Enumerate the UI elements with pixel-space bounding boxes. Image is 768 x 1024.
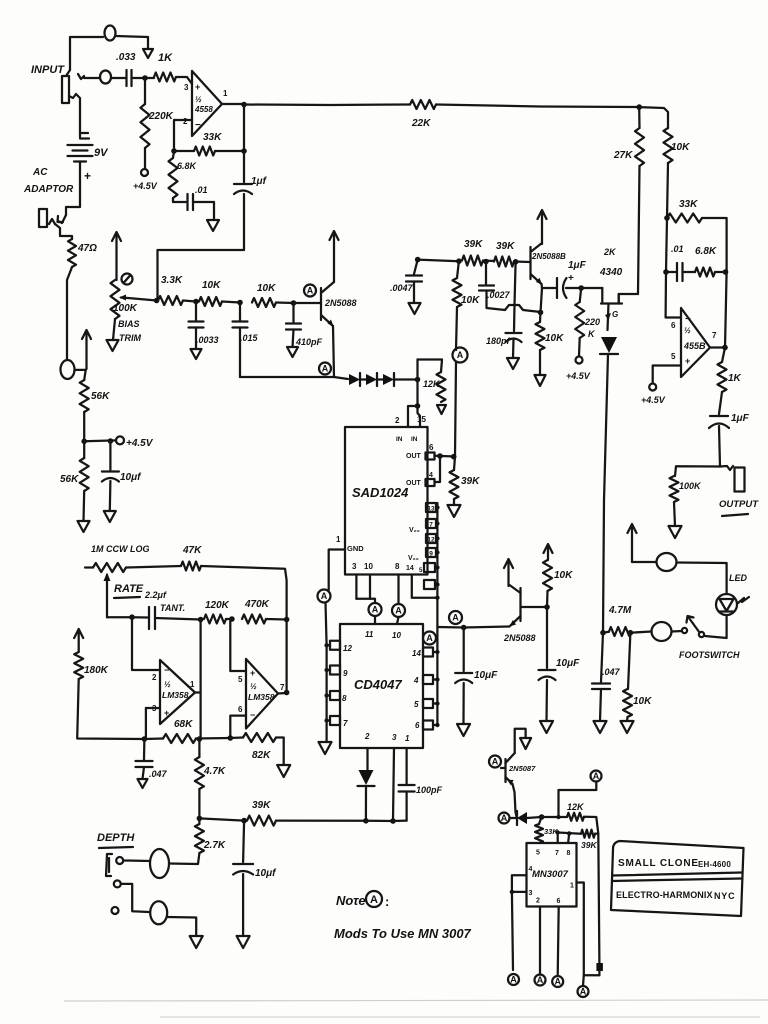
capacitor 1uF output [710, 415, 728, 417]
wire 470K to corner [266, 618, 287, 621]
svg-text:V₂₂: V₂₂ [408, 555, 419, 562]
AC adaptor jack [39, 209, 47, 227]
depth pot lower [150, 901, 167, 924]
node Q2 base [513, 259, 519, 265]
resistor 120K [204, 615, 226, 624]
wire C 1uf to bias row [158, 194, 245, 300]
node A mn d [578, 986, 589, 997]
svg-text:10: 10 [364, 562, 373, 571]
resistor 1K [154, 73, 176, 82]
resistor 39K a [462, 256, 483, 266]
wire A to cd pin10 [397, 617, 399, 624]
svg-text:EH-4600: EH-4600 [698, 860, 731, 869]
svg-text:FOOTSWITCH: FOOTSWITCH [679, 650, 740, 660]
capacitor .047 lfo [136, 760, 153, 762]
wire Q2 emitter node [542, 284, 557, 288]
wire 3.3K to 10K [183, 301, 196, 302]
arrow supply Q4 [507, 561, 509, 586]
wire arrow to pot3 [632, 561, 656, 563]
wire sad out [435, 455, 456, 458]
node +4.5V rail [81, 439, 87, 445]
svg-text:4340: 4340 [599, 267, 623, 278]
node A mn a [508, 974, 519, 985]
trimmer 100K BIAS TRIM [111, 280, 120, 319]
input jack J1 [62, 76, 69, 103]
svg-text:3: 3 [184, 83, 189, 92]
svg-text:6: 6 [415, 721, 420, 730]
node lfo cap left [129, 614, 135, 620]
node fb left [142, 736, 148, 742]
svg-text:2.7K: 2.7K [203, 840, 226, 851]
svg-text:47Ω: 47Ω [77, 243, 97, 254]
transistor Q5 2N5087 [504, 759, 506, 782]
node 470K left [229, 616, 235, 622]
resistor 39K depth [247, 816, 276, 826]
svg-text:3: 3 [352, 562, 357, 571]
capacitor 10uF b [539, 669, 556, 671]
resistor 220K vco [575, 302, 584, 338]
svg-text:10K: 10K [671, 142, 690, 153]
wire 10uf depth gnd [242, 874, 244, 936]
node bus 13 [435, 505, 439, 509]
wire 82K to gnd [276, 738, 284, 766]
svg-text:10K: 10K [202, 280, 221, 291]
wire node to 10K mid [457, 261, 459, 278]
LED D6 [716, 594, 737, 615]
node pin2 sad [415, 403, 421, 409]
wire adaptor to 47R [55, 224, 72, 239]
ground below 10uF b [540, 721, 553, 733]
svg-text:−: − [250, 710, 255, 720]
wire fb node to op2 pin6 [666, 272, 681, 318]
stub cd pin 7 [330, 716, 340, 725]
svg-text:10μf: 10μf [120, 472, 142, 483]
svg-text:+4.5V: +4.5V [566, 371, 591, 381]
wire 10K to 33K node [667, 163, 668, 218]
wire 10K2 stem [539, 312, 542, 322]
svg-text:100K: 100K [113, 303, 138, 314]
ground below 10K fs [621, 721, 634, 733]
node A mn c [552, 976, 563, 987]
resistor 10K q2 [536, 322, 545, 350]
op-amp U4A LM358 [160, 660, 195, 724]
wire fbmid to 4.7K [198, 739, 200, 757]
wire tip to C1 [111, 77, 126, 79]
wire 10uf depth stem [243, 821, 244, 862]
wire corner to 12K [418, 360, 443, 373]
IC U5 MN3007 [527, 843, 577, 907]
svg-text::: : [385, 894, 389, 909]
wire 10K to node2 [222, 302, 240, 303]
wire .047 lfo stem [143, 739, 146, 760]
arrow supply 10K q4 [547, 546, 549, 560]
wire wiper to 3.3K [128, 298, 157, 301]
svg-text:LED: LED [729, 573, 748, 583]
terminal +4.5V vco [576, 357, 583, 364]
wire node to 56K lower [83, 441, 85, 458]
node 6.8K right [723, 269, 729, 275]
arrow supply bias trim [115, 234, 117, 280]
svg-text:4: 4 [529, 866, 533, 873]
resistor 10K right [664, 128, 673, 163]
wire out2 loop [435, 456, 441, 482]
node pin8 mn [567, 831, 571, 835]
resistor 82K [243, 733, 276, 742]
wire cd pin 8 [327, 694, 330, 696]
transistor Q1 2N5088 [320, 288, 322, 320]
wire sad pin10 down [369, 575, 371, 599]
svg-text:.01: .01 [195, 185, 208, 195]
wire lm2 pin5 [230, 619, 246, 671]
wire row to 100pF corner [393, 819, 407, 822]
svg-text:5: 5 [238, 675, 243, 684]
wire switch to pot4 [672, 630, 682, 633]
wire 10uF a to gnd [462, 683, 464, 724]
arrow below 10K q2 [535, 375, 546, 386]
arrow to adaptor jack [58, 215, 66, 223]
svg-text:3: 3 [529, 890, 533, 897]
arrow supply Q2 collector [541, 212, 543, 244]
wire cap to 120K node [155, 618, 201, 620]
svg-text:Nοτе: Nοτе [336, 893, 366, 908]
svg-text:SMALL CLONE: SMALL CLONE [618, 858, 699, 869]
wire 220K stem [580, 288, 582, 302]
wire 56K lower to gnd [82, 491, 85, 521]
svg-text:2N5088: 2N5088 [324, 298, 357, 308]
wire 39K sad to gnd [453, 499, 455, 505]
svg-text:15: 15 [417, 415, 426, 424]
svg-text:.015: .015 [240, 333, 259, 343]
wire diode row left [240, 377, 348, 379]
ground below 39K sad [448, 505, 461, 517]
wire 56K to +4.5 node [83, 412, 85, 441]
arrow supply footswitch [631, 526, 633, 562]
wire 47R to sleeve circle [67, 267, 72, 360]
node lbus 9 [324, 668, 328, 672]
svg-text:RATE: RATE [114, 583, 144, 595]
svg-text:39K: 39K [581, 840, 597, 850]
svg-text:6: 6 [429, 443, 434, 452]
svg-text:10K: 10K [633, 696, 652, 707]
resistor 47R [68, 239, 76, 267]
stub cd pin 9 [330, 666, 340, 675]
arrow below 12K [437, 405, 446, 414]
pot 1M RATE [93, 563, 126, 572]
svg-text:10K: 10K [554, 570, 573, 581]
wire out node down [725, 272, 727, 348]
wire output node hook [720, 466, 733, 470]
svg-text:10μf: 10μf [255, 868, 277, 879]
wire 10K2 to gnd [539, 350, 541, 375]
node lfo right [284, 617, 290, 623]
svg-text:A: A [593, 771, 600, 781]
wire .015 stem [239, 303, 241, 321]
svg-text:1: 1 [223, 89, 228, 98]
svg-text:+: + [250, 668, 255, 678]
node bus c1 [435, 565, 439, 569]
wire .0027 stem [485, 262, 487, 285]
svg-text:14: 14 [412, 649, 421, 658]
wire cd right pin 4 [433, 678, 437, 680]
underline RATE [114, 597, 140, 598]
svg-text:2: 2 [364, 732, 370, 741]
svg-text:2: 2 [395, 416, 400, 425]
ground below .0033 [191, 349, 202, 359]
node bus pin14 [435, 596, 439, 600]
resistor 27K [635, 128, 644, 166]
wire lm2 out to 470K corner [285, 620, 287, 693]
node rbus 4 [435, 677, 439, 681]
wire 180pf stem [513, 305, 516, 331]
resistor 39K sad [450, 470, 459, 499]
wire A to diode2 [510, 817, 518, 819]
svg-text:A: A [370, 894, 378, 906]
diode D3 [383, 374, 394, 385]
ground below 10uF a [457, 724, 470, 736]
wire sad pin14 down [412, 575, 438, 598]
resistor 33K feedback [194, 147, 215, 156]
wire base node down [546, 607, 548, 668]
wire 22K to right column [436, 105, 639, 108]
node lbus 7 [324, 718, 328, 722]
wire 10K to node3 [276, 301, 294, 304]
wire lm1 out vertical [199, 620, 201, 740]
node lbus 12 [324, 643, 328, 647]
arrow supply Q1 collector [333, 233, 335, 282]
note circle A [366, 891, 382, 907]
ground below left bus [319, 742, 332, 754]
wire cd right pin 6 [433, 724, 437, 726]
node filter 2 [237, 300, 243, 306]
wire .015 down to diode row [239, 328, 241, 378]
wire 39K depth to cd area [276, 819, 366, 821]
underline DEPTH [99, 847, 133, 848]
wire 27K long drop [619, 166, 640, 303]
resistor 1K out [718, 362, 727, 392]
wire lm1 pin3 [146, 708, 160, 739]
svg-text:11: 11 [365, 630, 374, 639]
svg-text:BIAS: BIAS [118, 319, 140, 329]
svg-text:14: 14 [406, 565, 414, 572]
svg-text:A: A [426, 633, 433, 643]
transistor Q2 2N5088B [529, 247, 531, 279]
svg-text:1μF: 1μF [568, 260, 587, 271]
wire op2 out [710, 346, 725, 348]
svg-text:8: 8 [342, 694, 347, 703]
wire 220K to terminal [144, 148, 146, 169]
terminal +4.5V rail [116, 436, 124, 444]
svg-text:220K: 220K [148, 111, 174, 122]
wire rate wiper stem [106, 586, 108, 617]
capacitor 10uf depth [233, 863, 253, 865]
wire fb node to 6.8K [173, 151, 174, 158]
node sad out b [451, 454, 457, 460]
svg-text:+: + [164, 708, 169, 718]
svg-text:12K: 12K [423, 379, 441, 389]
svg-text:39K: 39K [461, 476, 480, 487]
svg-text:82K: 82K [252, 750, 271, 761]
sleeve contact circle [61, 360, 75, 379]
arrow below q5 collector [520, 738, 531, 749]
svg-text:3: 3 [392, 733, 397, 742]
wire D3 to vertical [394, 378, 418, 380]
svg-text:180pf: 180pf [486, 336, 511, 346]
wire cd right pin 14 [433, 651, 437, 653]
resistor 39K b [494, 257, 514, 267]
wire node to terminal [84, 439, 116, 442]
terminal depth 1 [116, 857, 123, 864]
node input bias junction [142, 75, 148, 81]
node bias feed [154, 298, 160, 304]
node sad out a [437, 453, 443, 459]
resistor 47K lfo [181, 562, 201, 571]
svg-text:TRIM: TRIM [119, 333, 141, 343]
wire 4.7M left [603, 631, 609, 634]
svg-text:A: A [457, 350, 464, 360]
node cd pin3 row [390, 818, 396, 824]
wire .0033 stem [195, 302, 197, 321]
wire 39K mn left [558, 833, 581, 834]
svg-text:470K: 470K [244, 599, 270, 610]
svg-text:.0033: .0033 [196, 335, 219, 345]
capacitor 10uf rail [102, 470, 119, 472]
wire node to 12K [542, 816, 567, 818]
terminal +4.5V op2 [649, 384, 656, 391]
svg-text:LM358: LM358 [162, 690, 189, 700]
wire jack tip hook [78, 74, 100, 79]
IC U2 SAD1024 [345, 427, 428, 575]
wire 180K down to row [77, 679, 144, 739]
wire pins3-10 join [356, 599, 375, 603]
svg-text:10μF: 10μF [474, 670, 498, 681]
node 4.7M right [628, 630, 634, 636]
stub sad pin 7 [426, 519, 436, 528]
wire adaptor hook [49, 219, 55, 224]
resistor 10K mid [453, 278, 462, 307]
stub cd right pin 4 [423, 675, 433, 684]
svg-text:10K: 10K [545, 333, 564, 344]
wire q5 emitter drop [513, 784, 517, 818]
wire .0033 to gnd [195, 328, 197, 350]
svg-text:5: 5 [536, 850, 540, 857]
svg-text:39K: 39K [496, 241, 515, 252]
wire lm1 pin2 [132, 617, 160, 670]
svg-text:A: A [492, 757, 499, 767]
wire 100K to gnd [674, 502, 675, 526]
stub sad corner b [424, 580, 435, 589]
resistor 56K upper [80, 380, 89, 412]
ground below 410pF [287, 347, 298, 357]
junction blob mn [596, 963, 603, 971]
wire 39K a to b [483, 259, 494, 262]
svg-text:A: A [322, 364, 329, 374]
wire cd pin 12 [327, 644, 330, 646]
capacitor .0047 [406, 274, 422, 276]
svg-text:ADAPTOR: ADAPTOR [23, 184, 74, 195]
svg-text:7: 7 [280, 683, 285, 692]
svg-text:1: 1 [336, 535, 341, 544]
node A near Q1 [304, 285, 316, 297]
title box divider [612, 873, 742, 876]
ground below .01 [207, 220, 219, 231]
wire 10uf stem [109, 441, 111, 470]
svg-text:OUT: OUT [406, 453, 422, 460]
wire A sadgnd to bus [326, 603, 327, 646]
wire 10uF b to gnd [545, 680, 548, 721]
wire trimmer to ground [113, 319, 115, 340]
svg-text:1: 1 [405, 734, 410, 743]
node lfo mid [198, 617, 204, 623]
svg-text:10μF: 10μF [556, 658, 580, 669]
wire node to 2.7K [198, 818, 200, 824]
node A feed [556, 815, 560, 819]
wire D1-D2 [360, 378, 366, 380]
wire sad pin 7 to bus [436, 522, 437, 524]
wire lm2 pin6 [230, 716, 246, 738]
svg-text:IN: IN [411, 436, 418, 443]
wire C .01 to ground [193, 202, 214, 220]
capacitor 2.2uf tant [148, 607, 150, 629]
wire top to 10K drop [639, 107, 668, 128]
capacitor 100pF [399, 784, 415, 786]
wire 10K fs stem [628, 633, 630, 689]
wire base node drop [515, 262, 516, 305]
capacitor .01 stage1 [186, 194, 188, 210]
svg-text:A: A [307, 286, 314, 296]
wire pot to 47K [126, 566, 181, 568]
wire node to 33K mn [539, 817, 542, 824]
svg-text:+: + [195, 82, 200, 92]
capacitor 10uF a [455, 672, 472, 674]
wire 410pF stem [292, 303, 294, 322]
resistor 470K [242, 615, 266, 624]
svg-text:4558: 4558 [194, 105, 213, 114]
wire 10K fs to gnd [626, 717, 629, 721]
svg-text:4.7M: 4.7M [608, 605, 632, 616]
wire 47K to corner [201, 566, 287, 619]
wire C out to output node [719, 426, 720, 467]
capacitor .047 fs [592, 682, 610, 684]
terminal depth 3 [112, 907, 119, 914]
svg-text:GND: GND [347, 544, 364, 553]
wire lm1 out [195, 691, 201, 693]
wire sad gnd pin [329, 550, 345, 591]
svg-text:A: A [501, 813, 508, 823]
svg-text:12: 12 [343, 644, 352, 653]
svg-text:1μf: 1μf [251, 176, 268, 187]
svg-text:33K: 33K [203, 132, 222, 143]
wire 12K to corner [584, 817, 598, 834]
node A diode row [319, 363, 331, 375]
svg-text:9V: 9V [94, 147, 109, 159]
diode D1 [349, 374, 360, 385]
svg-text:33K: 33K [679, 199, 698, 210]
node between 39Ks [483, 259, 489, 265]
svg-text:410pF: 410pF [295, 337, 323, 347]
node filter 3 [291, 300, 297, 306]
svg-text:INPUT: INPUT [31, 64, 65, 76]
wire D2-D3 [377, 378, 383, 380]
diode D5 cd [359, 770, 374, 785]
svg-text:.047: .047 [602, 667, 621, 677]
stub cd pin 12 [330, 641, 340, 650]
wire cd right pin 5 [433, 702, 437, 704]
wire battery to adaptor [66, 162, 80, 216]
svg-text:12K: 12K [567, 802, 585, 812]
wire C.01 to 6.8K [683, 271, 696, 273]
wire .047 fs to gnd [600, 689, 601, 721]
node 10uf depth [241, 818, 247, 824]
